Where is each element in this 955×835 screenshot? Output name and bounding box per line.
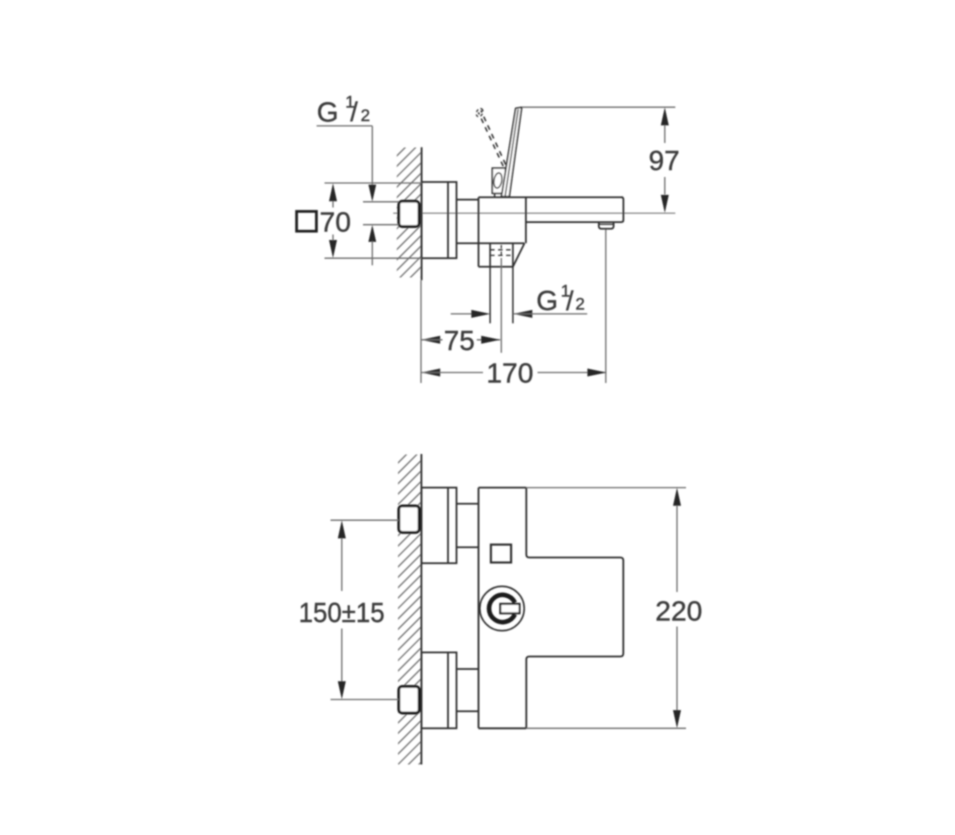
svg-text:2: 2 bbox=[575, 294, 584, 313]
svg-text:75: 75 bbox=[444, 325, 475, 356]
svg-text:G: G bbox=[536, 285, 558, 316]
svg-text:70: 70 bbox=[320, 207, 352, 238]
svg-text:97: 97 bbox=[649, 145, 680, 176]
svg-text:/: / bbox=[350, 97, 358, 127]
svg-text:170: 170 bbox=[486, 358, 533, 389]
svg-text:2: 2 bbox=[361, 106, 370, 125]
svg-text:150±15: 150±15 bbox=[299, 597, 385, 628]
svg-text:/: / bbox=[566, 286, 574, 316]
svg-text:G: G bbox=[317, 96, 339, 127]
svg-text:220: 220 bbox=[655, 596, 702, 627]
